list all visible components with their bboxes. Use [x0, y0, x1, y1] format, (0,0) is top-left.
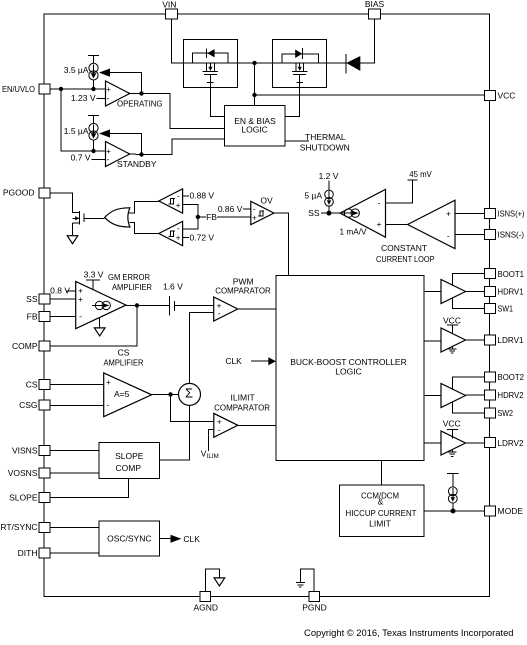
svg-text:&: &: [378, 496, 384, 506]
svg-text:+: +: [106, 377, 111, 387]
svg-text:VOSNS: VOSNS: [8, 468, 38, 478]
svg-text:+: +: [252, 212, 257, 222]
svg-text:LOGIC: LOGIC: [335, 366, 361, 376]
svg-text:PGND: PGND: [302, 603, 327, 613]
svg-text:BIAS: BIAS: [365, 0, 385, 9]
svg-text:3.5 µA: 3.5 µA: [64, 65, 89, 75]
svg-text:A=5: A=5: [114, 389, 130, 399]
svg-text:MODE: MODE: [498, 506, 524, 516]
svg-text:-: -: [107, 93, 110, 103]
svg-text:COMPARATOR: COMPARATOR: [215, 285, 271, 295]
svg-text:0.8 V: 0.8 V: [50, 286, 70, 296]
svg-text:HDRV1: HDRV1: [498, 287, 524, 297]
svg-text:+: +: [446, 209, 451, 219]
svg-text:1.23 V: 1.23 V: [71, 93, 96, 103]
svg-text:-: -: [218, 425, 221, 435]
svg-text:SS: SS: [308, 208, 320, 218]
svg-text:CONSTANT: CONSTANT: [381, 243, 427, 253]
svg-text:0.7 V: 0.7 V: [71, 152, 91, 162]
svg-text:PGOOD: PGOOD: [3, 188, 35, 198]
svg-text:SLOPE: SLOPE: [115, 451, 144, 461]
svg-text:-: -: [79, 311, 82, 321]
svg-text:SW1: SW1: [498, 304, 514, 314]
svg-text:VISNS: VISNS: [12, 445, 38, 455]
svg-text:ISNS(-): ISNS(-): [498, 229, 525, 239]
svg-text:-: -: [107, 154, 110, 164]
svg-text:VCC: VCC: [443, 316, 461, 326]
svg-text:STANDBY: STANDBY: [117, 159, 157, 169]
svg-text:ILIM: ILIM: [207, 453, 219, 460]
svg-text:COMP: COMP: [116, 463, 142, 473]
svg-text:5 µA: 5 µA: [304, 190, 322, 200]
svg-text:THERMAL: THERMAL: [305, 132, 346, 142]
svg-text:1.6 V: 1.6 V: [163, 281, 183, 291]
svg-text:ISNS(+): ISNS(+): [498, 209, 525, 219]
svg-text:AGND: AGND: [194, 603, 219, 613]
svg-text:3.3 V: 3.3 V: [84, 270, 104, 280]
svg-text:-: -: [447, 231, 450, 241]
svg-text:VIN: VIN: [162, 0, 176, 9]
svg-text:SS: SS: [26, 294, 38, 304]
svg-text:BOOT2: BOOT2: [498, 372, 525, 382]
svg-text:OV: OV: [260, 195, 273, 205]
svg-text:AMPLIFIER: AMPLIFIER: [112, 282, 152, 292]
svg-text:OPERATING: OPERATING: [117, 99, 163, 109]
svg-text:1 mA/V: 1 mA/V: [340, 226, 367, 236]
svg-text:COMPARATOR: COMPARATOR: [214, 403, 270, 413]
svg-text:VCC: VCC: [498, 90, 516, 100]
svg-text:CURRENT LOOP: CURRENT LOOP: [376, 254, 435, 264]
svg-text:EN/UVLO: EN/UVLO: [2, 84, 35, 94]
svg-text:CSG: CSG: [19, 400, 37, 410]
svg-text:FB: FB: [27, 311, 38, 321]
svg-text:FB: FB: [206, 212, 217, 222]
svg-text:Copyright © 2016, Texas Instru: Copyright © 2016, Texas Instruments Inco…: [304, 627, 513, 638]
svg-text:RT/SYNC: RT/SYNC: [0, 522, 37, 532]
svg-text:LIMIT: LIMIT: [369, 518, 391, 528]
svg-text:1.2 V: 1.2 V: [319, 171, 339, 181]
svg-text:ILIMIT: ILIMIT: [231, 393, 255, 403]
svg-text:SW2: SW2: [498, 408, 514, 418]
svg-text:HICCUP CURRENT: HICCUP CURRENT: [346, 508, 417, 518]
svg-text:LDRV1: LDRV1: [498, 335, 524, 345]
svg-text:CLK: CLK: [183, 534, 200, 544]
svg-text:HDRV2: HDRV2: [498, 390, 524, 400]
svg-text:CS: CS: [26, 379, 38, 389]
svg-text:VCC: VCC: [443, 418, 461, 428]
svg-text:Σ: Σ: [185, 386, 193, 401]
svg-text:1.5 µA: 1.5 µA: [64, 126, 89, 136]
svg-text:45 mV: 45 mV: [409, 169, 432, 179]
svg-text:0.72 V: 0.72 V: [190, 233, 215, 243]
svg-text:-: -: [378, 198, 381, 208]
svg-text:GM ERROR: GM ERROR: [108, 272, 150, 282]
svg-text:+: +: [78, 294, 83, 304]
svg-text:BOOT1: BOOT1: [498, 269, 525, 279]
svg-text:SHUTDOWN: SHUTDOWN: [300, 142, 350, 152]
svg-text:CLK: CLK: [225, 356, 242, 366]
svg-text:+: +: [377, 219, 382, 229]
svg-text:COMP: COMP: [12, 341, 38, 351]
svg-text:AMPLIFIER: AMPLIFIER: [104, 358, 144, 368]
svg-text:LOGIC: LOGIC: [241, 124, 267, 134]
svg-text:SLOPE: SLOPE: [9, 492, 38, 502]
svg-text:DITH: DITH: [18, 548, 38, 558]
svg-text:-: -: [218, 308, 221, 318]
svg-text:0.86 V: 0.86 V: [218, 204, 243, 214]
svg-text:0.88 V: 0.88 V: [190, 191, 215, 201]
svg-text:OSC/SYNC: OSC/SYNC: [107, 534, 151, 544]
svg-text:LDRV2: LDRV2: [498, 438, 524, 448]
svg-text:-: -: [106, 399, 109, 409]
svg-text:CS: CS: [118, 348, 130, 358]
